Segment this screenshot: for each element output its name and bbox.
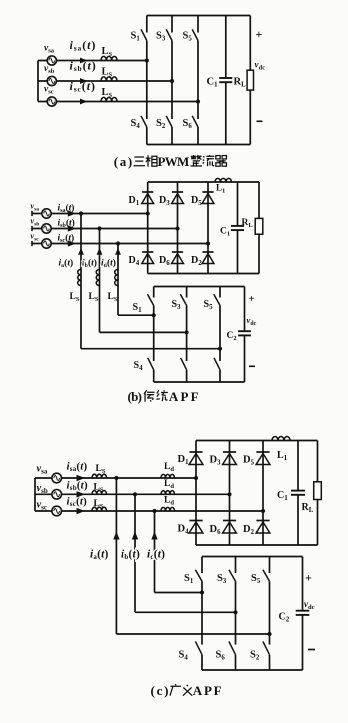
- wire leg1 bottom (fig a): [146, 127, 148, 145]
- node tap c (fig b): [116, 241, 120, 245]
- label isa(t) (fig a): [70, 38, 97, 53]
- svg-text:S5: S5: [251, 573, 261, 585]
- label ib(t) (fig b): [82, 258, 97, 270]
- node comp leg2 (fig c): [233, 610, 237, 614]
- capacitor C1 branch top (fig c): [297, 441, 299, 491]
- label S6 (fig a): [183, 118, 193, 130]
- current arrow ib up (fig c): [132, 532, 138, 540]
- node phase-c leg3 (fig a): [196, 99, 200, 103]
- switch S3 (fig c): [229, 557, 236, 582]
- wire RL branch top (fig b): [258, 182, 260, 218]
- svg-text:ia(t): ia(t): [90, 549, 109, 562]
- wire left bus (fig c): [34, 478, 36, 511]
- svg-text:D6: D6: [210, 524, 222, 536]
- current arrow ic up (fig c): [151, 532, 157, 540]
- wire leg3 mid (fig a): [197, 41, 199, 120]
- label Ls phase-b (fig a): [102, 67, 113, 79]
- label D4 (fig b): [129, 255, 140, 267]
- label vsa (fig b): [31, 202, 40, 213]
- wire diode bottom rail (fig c): [196, 544, 318, 546]
- wire leg3 bottom (fig a): [197, 127, 199, 145]
- label D1 (fig b): [129, 195, 140, 207]
- svg-text:S2: S2: [250, 650, 260, 662]
- label S5 (fig b): [204, 299, 214, 311]
- svg-text:S4: S4: [131, 118, 141, 130]
- switch S1 (fig c): [195, 557, 202, 582]
- terminal tick phase-c (fig b): [31, 241, 33, 246]
- diode D2 (fig c): [256, 521, 270, 534]
- svg-text:isb(t): isb(t): [70, 59, 97, 74]
- svg-text:S5: S5: [204, 299, 214, 311]
- svg-text:L1: L1: [277, 450, 288, 462]
- node tap c (fig c): [152, 509, 156, 513]
- svg-text:S6: S6: [183, 118, 193, 130]
- svg-text:C1: C1: [220, 227, 230, 238]
- label Ls phase-c (fig a): [102, 87, 113, 99]
- label S5 (fig a): [183, 31, 193, 43]
- inductor L1 (fig b): [215, 178, 232, 182]
- wire inverter right bottom (fig b): [244, 335, 246, 382]
- wire top rail (fig a): [147, 15, 251, 17]
- label RL (fig b): [242, 218, 254, 229]
- label D3 (fig b): [159, 195, 170, 207]
- node tap a (fig c): [114, 476, 118, 480]
- wire bottom rail (fig a): [147, 144, 251, 146]
- node phase-b leg2 (fig a): [170, 79, 174, 83]
- svg-text:RL: RL: [242, 218, 254, 229]
- current arrow isb (fig a): [80, 78, 88, 84]
- current arrow isa (fig a): [80, 58, 88, 64]
- label isb(t) (fig b): [58, 218, 75, 230]
- svg-text:D4: D4: [129, 255, 140, 267]
- diode D6 (fig b): [172, 252, 184, 264]
- wire diode bottom rail (fig b): [148, 273, 259, 275]
- svg-text:Ld: Ld: [164, 496, 174, 507]
- svg-text:C1: C1: [207, 77, 219, 89]
- label S1 (fig c): [184, 573, 194, 585]
- svg-text:D2: D2: [191, 255, 202, 267]
- svg-text:vsa: vsa: [37, 464, 48, 476]
- node comp leg2 (fig b): [185, 330, 189, 334]
- label S3 (fig b): [172, 299, 182, 311]
- svg-text:+: +: [249, 293, 255, 305]
- svg-text:S6: S6: [216, 650, 226, 662]
- label isa(t) (fig b): [58, 203, 75, 215]
- svg-text:S1: S1: [131, 31, 141, 43]
- label RL (fig c): [302, 502, 314, 514]
- svg-text:ic(t): ic(t): [147, 549, 165, 562]
- wire RL branch top (fig a): [249, 16, 251, 71]
- wire RL branch bottom (fig b): [258, 234, 260, 273]
- inductor Ls phase-c (fig a): [101, 97, 117, 101]
- label C1 (fig b): [220, 227, 230, 238]
- label S2 (fig c): [250, 650, 260, 662]
- inductor Ld phase-c (fig c): [161, 507, 175, 511]
- svg-text:Ld: Ld: [164, 479, 174, 490]
- inductor Ls phase-a (fig c): [92, 474, 107, 478]
- wire inverter right bottom (fig c): [302, 615, 304, 670]
- svg-text:isa(t): isa(t): [58, 203, 75, 215]
- capacitor C1 branch bottom (fig a): [225, 82, 227, 144]
- svg-text:LS: LS: [102, 87, 113, 99]
- label ib(t) (fig c): [121, 549, 140, 562]
- label S4 (fig a): [131, 118, 141, 130]
- wire inverter right top (fig b): [244, 287, 246, 332]
- label RL (fig a): [234, 77, 247, 89]
- switch S6 (fig c): [229, 641, 236, 654]
- switch S5 (fig a): [192, 16, 198, 41]
- current arrow isa (fig c): [77, 475, 86, 481]
- wire diode top rail (fig b): [148, 181, 259, 183]
- capacitor C1 branch bottom (fig b): [237, 230, 239, 273]
- svg-text:S4: S4: [134, 360, 144, 372]
- voltage source vsc (fig c): [52, 506, 62, 516]
- diode D5 (fig b): [202, 192, 214, 204]
- svg-text:isc(t): isc(t): [70, 79, 96, 94]
- label Ls comp c (fig b): [108, 292, 118, 303]
- label ia(t) (fig b): [59, 258, 74, 270]
- svg-text:ia(t): ia(t): [59, 258, 74, 270]
- wire inv leg2 mid (fig b): [186, 306, 188, 362]
- switch S4-3 blade leg3 (fig b): [214, 358, 220, 370]
- capacitor C1 (fig c): [291, 491, 305, 495]
- wire comp vertical b (fig b): [99, 229, 101, 333]
- label vdc (fig c): [304, 599, 315, 611]
- inductor Ls phase-a (fig a): [101, 56, 117, 60]
- current arrow isb (fig b): [68, 225, 76, 231]
- svg-text:LS: LS: [70, 292, 80, 303]
- node phase-c leg D5 (fig c): [261, 509, 265, 513]
- svg-text:D4: D4: [178, 524, 190, 536]
- switch S2 (fig a): [166, 116, 172, 127]
- svg-text:(b): (b): [128, 389, 143, 404]
- svg-text:C2: C2: [227, 331, 237, 342]
- wire phase-c (fig c): [35, 510, 263, 512]
- svg-text:S3: S3: [217, 573, 227, 585]
- label isb(t) (fig a): [70, 59, 97, 74]
- label vsb (fig a): [44, 64, 55, 75]
- wire inv leg3 bottom (fig c): [269, 655, 271, 670]
- node comp leg3 (fig c): [267, 632, 271, 636]
- wire phase-b (fig b): [32, 228, 178, 230]
- svg-text:isc(t): isc(t): [58, 233, 75, 245]
- svg-text:isa(t): isa(t): [67, 461, 88, 474]
- label plus (fig a): [256, 27, 263, 41]
- label D6 (fig c): [210, 524, 222, 536]
- wire comp to leg3 (fig b): [81, 348, 220, 350]
- svg-text:L1: L1: [216, 183, 225, 195]
- svg-text:APF: APF: [169, 389, 199, 404]
- label C2 (fig b): [227, 331, 237, 342]
- node comp leg1 (fig b): [152, 313, 156, 317]
- voltage source vsc (fig b): [42, 239, 51, 248]
- diode D3 (fig c): [223, 452, 237, 465]
- wire diode leg3 (fig b): [207, 182, 209, 274]
- voltage source vsa (fig b): [42, 209, 51, 218]
- node phase-a leg D1 (fig c): [194, 476, 198, 480]
- svg-text:isb(t): isb(t): [58, 218, 75, 230]
- inductor Ls phase-c (fig c): [92, 507, 107, 511]
- wire inv leg2 bottom (fig c): [235, 655, 237, 670]
- inductor Ld phase-a (fig c): [161, 474, 175, 478]
- wire comp to leg3 (fig c): [116, 633, 269, 635]
- svg-text:ib(t): ib(t): [121, 549, 140, 562]
- capacitor C1 branch top (fig b): [237, 182, 239, 226]
- switch S4 (fig c): [195, 641, 202, 654]
- wire diode leg1 (fig b): [147, 182, 149, 274]
- wire inverter top rail (fig b): [154, 286, 245, 288]
- svg-text:vsc: vsc: [37, 500, 48, 512]
- label S2 (fig a): [156, 118, 166, 130]
- label D5 (fig b): [191, 195, 202, 207]
- node tap b (fig c): [133, 492, 137, 496]
- wire inv leg1 bottom (fig b): [153, 370, 155, 382]
- svg-text:vdc: vdc: [255, 60, 266, 72]
- node phase-c leg D5 (fig b): [206, 241, 210, 245]
- svg-text:vdc: vdc: [247, 315, 257, 327]
- capacitor C2 (fig c): [296, 611, 310, 615]
- label plus (fig b): [249, 293, 255, 305]
- label C2 (fig c): [279, 612, 290, 624]
- label C1 (fig c): [277, 490, 288, 502]
- diode D1 (fig c): [189, 452, 203, 465]
- svg-text:vsa: vsa: [31, 202, 40, 213]
- svg-text:D2: D2: [243, 524, 255, 536]
- svg-text:D3: D3: [159, 195, 170, 207]
- wire inv leg3 mid (fig c): [269, 581, 271, 644]
- label vdc (fig a): [255, 60, 266, 72]
- wire phase-c bus to bridge (fig a): [38, 101, 198, 103]
- wire diode leg1 (fig c): [195, 441, 197, 546]
- voltage source vsa (fig c): [52, 473, 62, 483]
- wire RL branch bottom (fig a): [249, 90, 251, 144]
- wire inv leg1 bottom (fig c): [201, 655, 203, 670]
- label plus (fig c): [305, 571, 312, 585]
- label vsb (fig c): [37, 483, 48, 495]
- wire diode top rail (fig c): [196, 440, 318, 442]
- current arrow isc (fig a): [80, 99, 88, 105]
- caption (c): [151, 683, 222, 698]
- terminal tick phase-a (fig b): [31, 211, 33, 216]
- label D3 (fig c): [210, 455, 222, 467]
- diode D2 (fig b): [202, 252, 214, 264]
- node phase-b leg D3 (fig b): [175, 226, 179, 230]
- label Ls phase-a (fig c): [96, 464, 106, 475]
- current arrow isc (fig c): [77, 508, 86, 514]
- switch S2 (fig c): [263, 641, 270, 654]
- label D5 (fig c): [243, 455, 255, 467]
- svg-text:vsa: vsa: [44, 44, 55, 55]
- current arrow ic up (fig b): [115, 248, 121, 255]
- label Ls phase-a (fig a): [102, 46, 113, 58]
- current arrow ia up (fig c): [113, 532, 119, 540]
- wire phase-c (fig b): [32, 243, 208, 245]
- label ia(t) (fig c): [90, 549, 109, 562]
- wire comp vertical a (fig b): [80, 214, 82, 349]
- wire diode leg2 (fig b): [177, 182, 179, 274]
- label D4 (fig c): [178, 524, 190, 536]
- svg-text:isc(t): isc(t): [67, 496, 88, 509]
- switch S1 (fig b): [148, 287, 154, 306]
- inductor Ls phase-b (fig a): [101, 77, 117, 81]
- wire inverter right top (fig c): [302, 557, 304, 611]
- svg-text:D3: D3: [210, 455, 222, 467]
- node comp leg1 (fig c): [200, 590, 204, 594]
- capacitor C1 branch top (fig a): [225, 16, 227, 79]
- svg-text:S4: S4: [179, 650, 189, 662]
- label vsc (fig b): [31, 232, 40, 243]
- svg-text:RL: RL: [234, 77, 247, 89]
- caption (b): [128, 389, 199, 404]
- node tap b (fig b): [97, 226, 101, 230]
- label isb(t) (fig c): [67, 480, 88, 493]
- label L1 (fig c): [277, 450, 288, 462]
- svg-text:vdc: vdc: [304, 599, 315, 611]
- inductor Ls phase-b (fig c): [92, 490, 107, 494]
- diode D4 (fig c): [189, 521, 203, 534]
- svg-text:D5: D5: [243, 455, 255, 467]
- wire inv leg1 mid (fig b): [153, 306, 155, 362]
- label vsb (fig b): [31, 217, 40, 228]
- label isa(t) (fig c): [67, 461, 88, 474]
- svg-text:isa(t): isa(t): [70, 38, 97, 53]
- svg-text:D6: D6: [159, 255, 170, 267]
- svg-text:vsb: vsb: [31, 217, 40, 228]
- label D6 (fig b): [159, 255, 170, 267]
- wire inv leg3 mid (fig b): [219, 306, 221, 362]
- label S1 (fig a): [131, 31, 141, 43]
- label isc(t) (fig c): [67, 496, 88, 509]
- voltage source vsb (fig a): [47, 76, 56, 85]
- voltage source vsc (fig a): [47, 97, 56, 106]
- wire phase-a (fig c): [35, 477, 196, 479]
- svg-text:ib(t): ib(t): [82, 258, 97, 270]
- wire diode leg2 (fig c): [229, 441, 231, 546]
- switch S6 (fig a): [192, 116, 198, 127]
- label S1 (fig b): [133, 302, 143, 314]
- node phase-a leg D1 (fig b): [146, 211, 150, 215]
- diode D1 (fig b): [142, 192, 154, 204]
- wire comp vertical a (fig c): [115, 478, 117, 634]
- wire inverter bottom rail (fig c): [202, 669, 303, 671]
- wire phase-b (fig c): [35, 493, 230, 495]
- label S4 (fig b): [134, 360, 144, 372]
- label C1 (fig a): [207, 77, 219, 89]
- svg-text:S5: S5: [183, 31, 193, 43]
- inductor Ld phase-b (fig c): [161, 491, 175, 495]
- wire phase-a (fig b): [32, 213, 148, 215]
- wire diode leg3 (fig c): [262, 441, 264, 546]
- inductor Ls comp b (fig b): [96, 270, 99, 286]
- wire leg1 mid (fig a): [146, 41, 148, 120]
- switch S5 (fig b): [214, 287, 220, 306]
- switch S1 (fig a): [141, 16, 147, 41]
- label ic(t) (fig c): [147, 549, 165, 562]
- diode D3 (fig b): [172, 192, 184, 204]
- svg-text:S3: S3: [156, 31, 166, 43]
- inductor Ls comp c (fig b): [115, 270, 118, 286]
- current arrow isb (fig c): [77, 491, 86, 497]
- svg-text:Ld: Ld: [164, 462, 174, 473]
- svg-text:RL: RL: [302, 502, 314, 514]
- svg-text:LS: LS: [102, 46, 113, 58]
- svg-text:D5: D5: [191, 195, 202, 207]
- svg-text:+: +: [305, 571, 312, 585]
- label Ld phase-c (fig c): [164, 496, 174, 507]
- wire RL branch bottom (fig c): [317, 500, 319, 546]
- wire inverter top rail (fig c): [202, 556, 303, 558]
- svg-text:vsb: vsb: [37, 483, 48, 495]
- voltage source vsb (fig c): [52, 490, 62, 500]
- label S4 (fig c): [179, 650, 189, 662]
- svg-text:LS: LS: [96, 464, 106, 475]
- label Ld phase-a (fig c): [164, 462, 174, 473]
- wire comp to leg2 (fig c): [135, 611, 236, 613]
- label vsa (fig c): [37, 464, 48, 476]
- node comp leg3 (fig b): [218, 347, 222, 351]
- node tap a (fig b): [79, 211, 83, 215]
- label minus (fig c): [308, 649, 315, 651]
- capacitor C1 branch bottom (fig c): [297, 495, 299, 545]
- label D1 (fig c): [178, 454, 190, 466]
- current arrow isc (fig b): [68, 240, 76, 246]
- terminal tick phase-b (fig b): [31, 226, 33, 231]
- label Ls comp b (fig b): [89, 292, 99, 303]
- svg-text:S3: S3: [172, 299, 182, 311]
- switch S5 (fig c): [263, 557, 270, 582]
- label L1 (fig b): [216, 183, 225, 195]
- wire comp to leg2 (fig b): [100, 331, 187, 333]
- diode D6 (fig c): [223, 521, 237, 534]
- node phase-a leg1 (fig a): [145, 58, 149, 62]
- diode D5 (fig c): [256, 452, 270, 465]
- wire comp vertical b (fig c): [134, 494, 136, 612]
- inductor Ls comp a (fig b): [78, 270, 81, 286]
- label ic(t) (fig b): [101, 258, 116, 270]
- label Ls comp a (fig b): [70, 292, 80, 303]
- caption (a): [114, 154, 227, 169]
- svg-text:D1: D1: [129, 195, 140, 207]
- switch S4 (fig a): [141, 116, 147, 127]
- svg-text:(c): (c): [151, 683, 169, 698]
- svg-text:vsc: vsc: [31, 232, 40, 243]
- switch S3 (fig b): [180, 287, 186, 306]
- wire RL branch top (fig c): [317, 441, 319, 482]
- node phase-b leg D3 (fig c): [227, 492, 231, 496]
- voltage source vsb (fig b): [42, 224, 51, 233]
- svg-text:S2: S2: [156, 118, 166, 130]
- wire comp to leg1 (fig b): [118, 314, 154, 316]
- resistor RL (fig c): [314, 482, 322, 500]
- current arrow ia up (fig b): [78, 248, 84, 255]
- svg-text:LS: LS: [108, 292, 118, 303]
- capacitor C1 (fig b): [231, 226, 244, 230]
- switch S3 (fig a): [166, 16, 172, 41]
- label Ls phase-c (fig c): [94, 499, 104, 510]
- label isc(t) (fig a): [70, 79, 96, 94]
- wire inverter bottom rail (fig b): [154, 381, 245, 383]
- wire left bus (fig a): [37, 61, 39, 102]
- svg-text:D1: D1: [178, 454, 190, 466]
- resistor RL (fig b): [255, 218, 263, 234]
- capacitor C2 (fig b): [238, 331, 251, 335]
- svg-text:+: +: [256, 27, 263, 41]
- wire inv leg3 bottom (fig b): [219, 370, 221, 382]
- svg-text:C2: C2: [279, 612, 290, 624]
- svg-text:LS: LS: [89, 292, 99, 303]
- resistor RL (fig a): [247, 70, 253, 90]
- capacitor C1 (fig a): [219, 78, 232, 82]
